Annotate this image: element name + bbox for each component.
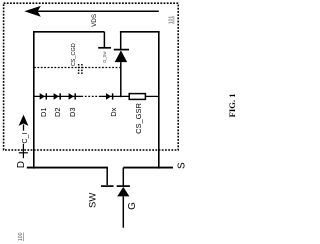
resistor CS_GSR	[129, 94, 145, 100]
diode D2	[54, 93, 61, 100]
capacitor CS_CGD (dotted)	[79, 64, 82, 75]
svg-text:C_I: C_I	[22, 133, 29, 144]
diode of switch (top)	[114, 32, 129, 97]
wire: right vertical	[158, 31, 160, 169]
svg-text:VDS: VDS	[91, 14, 98, 27]
svg-text:D3: D3	[68, 107, 77, 117]
wire: top segment 2	[120, 31, 160, 33]
svg-text:100: 100	[18, 232, 24, 241]
diode Dx	[106, 93, 113, 100]
svg-text:CS_CGD: CS_CGD	[71, 43, 77, 66]
dashed enclosure box 101	[4, 3, 179, 150]
body diode of SW	[117, 168, 130, 228]
wire: source line	[123, 167, 173, 169]
svg-text:G: G	[127, 202, 138, 210]
svg-text:S: S	[177, 162, 188, 169]
svg-text:CS_GSR: CS_GSR	[134, 102, 143, 133]
svg-text:SW: SW	[88, 193, 99, 208]
gate of transistor SW	[101, 168, 114, 187]
svg-text:D: D	[16, 161, 27, 168]
svg-text:101: 101	[169, 16, 175, 25]
diode chain line	[34, 95, 81, 97]
terminal cross C_I	[19, 144, 28, 159]
diode D3	[69, 93, 76, 100]
wire: drain line	[27, 167, 108, 169]
diode D1	[40, 93, 47, 100]
wire: top segment 1	[33, 31, 104, 33]
svg-text:D2: D2	[53, 107, 62, 117]
wire: left vertical	[33, 31, 35, 169]
svg-text:Dx: Dx	[109, 107, 118, 116]
svg-text:D1: D1	[39, 107, 48, 117]
current arrow C_I	[19, 115, 29, 131]
svg-text:G_Sw: G_Sw	[102, 51, 107, 63]
svg-text:FIG. 1: FIG. 1	[227, 93, 237, 117]
gate plate of switch G_Sw	[98, 32, 111, 48]
VDS arrow	[24, 6, 159, 17]
dotted line to CS_CGD	[34, 67, 120, 69]
